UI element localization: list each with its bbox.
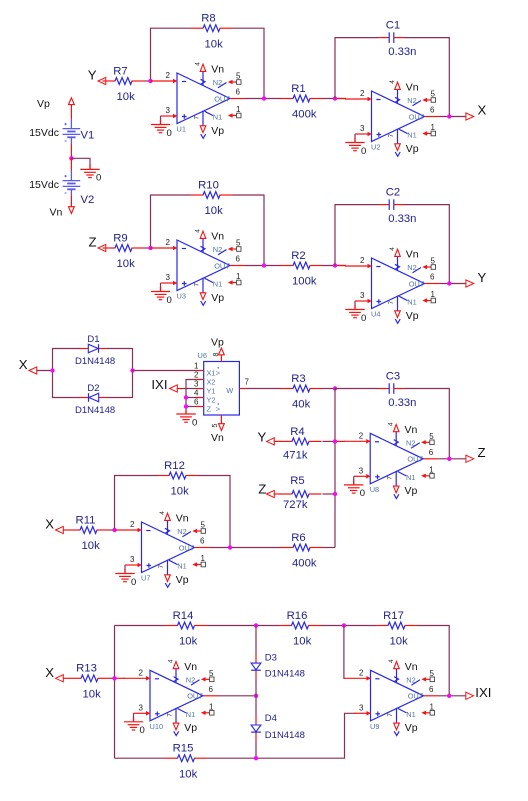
wire U6 W output <box>239 388 247 390</box>
power flag Vp <box>37 98 74 110</box>
svg-text:Y1: Y1 <box>207 386 216 395</box>
ground <box>345 306 366 324</box>
svg-text:R12: R12 <box>164 460 185 472</box>
wire <box>354 305 356 310</box>
pin leads <box>196 380 204 407</box>
svg-text:U4: U4 <box>371 310 380 319</box>
power pin Vn of U6 <box>211 415 224 444</box>
wire left vertical R14/R15 <box>114 626 116 759</box>
svg-text:Vp: Vp <box>211 337 224 349</box>
svg-text:>: > <box>216 368 220 377</box>
svg-text:V2: V2 <box>81 194 95 206</box>
resistor R8 <box>191 13 233 51</box>
power pin Vp of U6 <box>211 337 224 362</box>
svg-text:X: X <box>478 103 487 118</box>
wire U7 output to R6 <box>210 547 282 549</box>
svg-text:15Vdc: 15Vdc <box>29 179 59 191</box>
svg-text:IXI: IXI <box>475 685 491 700</box>
wire <box>255 740 257 758</box>
wire <box>274 440 281 442</box>
svg-text:2: 2 <box>194 371 199 380</box>
wire <box>177 388 183 390</box>
wire R10 feedback loop <box>151 195 191 248</box>
svg-text:15Vdc: 15Vdc <box>29 127 59 139</box>
junction <box>333 492 337 496</box>
svg-text:D2: D2 <box>87 383 99 394</box>
wire C2 feedback loop <box>335 205 379 266</box>
svg-text:R13: R13 <box>76 663 97 675</box>
svg-text:X1: X1 <box>207 368 216 377</box>
wire C1 feedback loop <box>335 38 379 99</box>
ground <box>344 481 365 499</box>
junction <box>333 96 337 100</box>
wire to U2 pin 2 (red lead) <box>335 98 346 100</box>
svg-text:X: X <box>45 517 54 532</box>
svg-text:Y: Y <box>478 270 487 285</box>
ground <box>80 165 101 183</box>
svg-text:10k: 10k <box>117 258 136 270</box>
svg-text:7: 7 <box>245 378 250 387</box>
wire <box>354 138 356 143</box>
op-amp U3 <box>151 229 246 306</box>
wire upper diode branch <box>53 349 81 371</box>
wire U10 output to diode node <box>218 695 256 697</box>
junction <box>447 281 451 285</box>
svg-text:C2: C2 <box>386 187 400 199</box>
junction <box>333 439 337 443</box>
svg-text:10k: 10k <box>179 768 198 780</box>
junction <box>130 368 134 372</box>
svg-text:W: W <box>226 386 233 395</box>
svg-text:C3: C3 <box>386 371 400 383</box>
junction <box>112 528 116 532</box>
wire U2 pin3 to ground <box>354 134 356 139</box>
svg-text:10k: 10k <box>83 689 102 701</box>
wire X to diode branch <box>36 370 52 372</box>
node IXI to U6 pin Y1 <box>151 377 177 392</box>
wire junction to ground 0 <box>71 158 90 166</box>
wire <box>353 480 355 485</box>
wire U1 output <box>245 98 281 100</box>
wire U10 pin3 to ground <box>133 713 135 718</box>
svg-text:U3: U3 <box>177 292 186 301</box>
dc source V2 15Vdc <box>29 171 94 206</box>
ground <box>124 718 145 736</box>
svg-text:0.33n: 0.33n <box>388 46 416 58</box>
junction <box>69 156 73 160</box>
wire <box>274 493 281 495</box>
svg-text:Vp: Vp <box>37 98 50 110</box>
junction <box>447 694 451 698</box>
wire U6 X2/Y2/Z to ground <box>186 380 196 411</box>
resistor R2 <box>281 250 323 288</box>
node Z (input, row 2) <box>88 234 105 251</box>
dc source V1 15Vdc <box>29 119 94 144</box>
op-amp U1 <box>151 62 246 139</box>
svg-text:10k: 10k <box>117 91 136 103</box>
svg-text:100k: 100k <box>292 276 317 288</box>
svg-text:10k: 10k <box>205 38 224 50</box>
op-amp U4 <box>345 247 440 324</box>
capacitor C2 <box>379 187 417 226</box>
svg-text:R14: R14 <box>173 610 194 622</box>
svg-text:Z: Z <box>478 445 486 460</box>
svg-text:10k: 10k <box>390 636 409 648</box>
wire diode chain top <box>255 626 257 655</box>
wire <box>207 713 355 758</box>
wire <box>321 625 376 627</box>
wire V1 to junction <box>70 143 72 158</box>
wire <box>63 529 68 531</box>
wire R8 feedback loop <box>151 28 191 81</box>
svg-text:X2: X2 <box>207 377 216 386</box>
svg-text:R11: R11 <box>76 514 96 526</box>
wire U8 output to Z <box>438 458 466 460</box>
svg-text:R3: R3 <box>291 373 305 385</box>
node IXI (output) <box>466 685 492 700</box>
svg-text:3: 3 <box>194 380 199 389</box>
wire <box>255 696 257 717</box>
svg-text:6: 6 <box>194 398 199 407</box>
node Y (output, row 2) <box>466 270 487 287</box>
resistor R12 <box>157 460 199 498</box>
wire <box>89 165 91 169</box>
wire <box>107 371 133 398</box>
diode D1 D1N4148 <box>75 334 115 367</box>
svg-text:R4: R4 <box>290 426 304 438</box>
multiplier U6 <box>194 351 249 428</box>
node Z (output, row 3) <box>466 445 486 462</box>
svg-text:10k: 10k <box>205 205 224 217</box>
junction <box>333 263 337 267</box>
svg-text:D1N4148: D1N4148 <box>75 356 115 367</box>
node X (output, row 1) <box>466 103 487 121</box>
resistor R6 <box>281 532 323 570</box>
svg-text:R9: R9 <box>113 232 127 244</box>
svg-text:D1N4148: D1N4148 <box>265 668 305 679</box>
diode D3 D1N4148 (pointing down) <box>251 652 305 679</box>
svg-text:400k: 400k <box>292 109 317 121</box>
svg-text:Y: Y <box>258 430 267 445</box>
wire R7 to U1 pin 2 junction <box>145 80 153 82</box>
wire R4 to bus / U8 pin2 <box>323 440 336 442</box>
junction <box>50 368 54 372</box>
wire R12 feedback loop <box>115 476 157 531</box>
junction <box>333 386 337 390</box>
svg-text:D1: D1 <box>87 334 99 345</box>
junction <box>262 96 266 100</box>
wire U2 output to X <box>440 116 467 118</box>
svg-text:R6: R6 <box>291 532 305 544</box>
ground <box>176 410 197 428</box>
svg-text:X: X <box>19 357 28 372</box>
node X (input, row 4) <box>45 665 63 682</box>
wire <box>107 349 133 371</box>
resistor R17 <box>376 610 418 648</box>
svg-text:Z: Z <box>207 404 212 413</box>
svg-text:R2: R2 <box>291 250 305 262</box>
svg-text:5: 5 <box>212 424 219 428</box>
resistor R3 <box>281 373 323 411</box>
svg-text:V1: V1 <box>81 130 95 142</box>
wire U7 pin3 to ground <box>124 565 126 570</box>
junction <box>254 756 258 760</box>
resistor R13 <box>69 663 111 701</box>
svg-text:>: > <box>216 404 220 413</box>
resistor R4 <box>280 426 322 462</box>
svg-text:R1: R1 <box>291 83 305 95</box>
svg-text:727k: 727k <box>283 499 308 511</box>
wire pin2 lead <box>115 677 126 679</box>
svg-text:10k: 10k <box>82 540 101 552</box>
svg-text:D1N4148: D1N4148 <box>265 730 305 741</box>
resistor R10 <box>191 179 233 217</box>
junction <box>228 545 232 549</box>
svg-text:R10: R10 <box>198 179 219 191</box>
junction <box>262 263 266 267</box>
ground <box>115 570 136 588</box>
wire U1 pin3 to ground <box>160 116 162 121</box>
wire R13 to U10 junction <box>111 677 117 679</box>
svg-text:R5: R5 <box>290 475 304 487</box>
svg-text:X: X <box>45 665 54 680</box>
wire U3 output <box>245 265 281 267</box>
wire to U4 pin 2 (red lead) <box>335 265 346 267</box>
diode D2 D1N4148 (reversed) <box>75 383 115 416</box>
wire U4 output to Y <box>440 283 467 285</box>
svg-text:Y2: Y2 <box>207 395 216 404</box>
node Z (input, row 3) <box>258 482 274 498</box>
junction <box>342 623 346 627</box>
svg-text:D1N4148: D1N4148 <box>75 405 115 416</box>
svg-text:D4: D4 <box>265 713 277 724</box>
svg-text:U9: U9 <box>370 722 379 731</box>
svg-text:40k: 40k <box>292 399 311 411</box>
svg-text:R8: R8 <box>201 13 215 25</box>
svg-text:4: 4 <box>194 389 199 398</box>
diode D4 D1N4148 (pointing down) <box>251 713 305 741</box>
op-amp U7 <box>115 511 210 588</box>
op-amp U9 <box>344 659 439 736</box>
svg-text:C1: C1 <box>386 20 400 32</box>
wire lower diode branch <box>53 371 81 398</box>
wire rail to U9 feedback vertical <box>418 626 450 696</box>
node Y (input, row 1) <box>88 67 106 84</box>
svg-text:U7: U7 <box>141 574 150 583</box>
wire <box>124 569 126 574</box>
svg-text:R17: R17 <box>383 610 404 622</box>
wire R9 to U3 pin 2 junction <box>145 247 153 249</box>
wire mid vertical to U9 pin 2 <box>344 626 345 679</box>
svg-text:U1: U1 <box>177 125 186 134</box>
node Y (input, row 3) <box>258 430 275 446</box>
node X (input, U7) <box>45 517 63 534</box>
wire <box>63 677 69 679</box>
wire bottom rail R15 <box>115 757 166 759</box>
junction <box>447 457 451 461</box>
ground <box>151 288 172 306</box>
wire junction to V2 <box>70 158 72 171</box>
svg-text:Vn: Vn <box>211 432 224 444</box>
junction <box>184 404 188 408</box>
resistor R9 <box>103 232 145 270</box>
junction <box>148 246 152 250</box>
capacitor C1 <box>379 20 417 59</box>
wire U4 pin3 to ground <box>354 301 356 306</box>
svg-text:400k: 400k <box>292 558 317 570</box>
wire U3 pin3 to ground <box>160 283 162 288</box>
ground <box>151 121 172 139</box>
svg-text:U2: U2 <box>371 143 380 152</box>
svg-text:Vn: Vn <box>50 207 63 219</box>
wire R2 to C2 junction <box>323 265 347 267</box>
resistor R7 <box>103 65 145 103</box>
op-amp U2 <box>345 80 440 157</box>
resistor R11 <box>68 514 110 552</box>
wire R6 to bus <box>323 547 336 549</box>
resistor R14 <box>165 610 207 648</box>
svg-text:1: 1 <box>194 362 199 371</box>
svg-text:U10: U10 <box>150 722 164 731</box>
junction <box>254 623 258 627</box>
svg-text:U6: U6 <box>198 351 207 360</box>
wire summing bus <box>334 389 336 548</box>
resistor R15 <box>165 743 207 781</box>
resistor R16 <box>279 610 321 648</box>
svg-text:10k: 10k <box>293 636 312 648</box>
svg-text:Z: Z <box>88 234 96 249</box>
wire V2 to Vn <box>70 195 72 207</box>
resistor R1 <box>281 83 323 121</box>
wire R3 to bus <box>323 388 336 390</box>
wire <box>160 287 162 292</box>
capacitor C3 <box>379 371 417 410</box>
svg-text:10k: 10k <box>171 486 190 498</box>
junction <box>447 114 451 118</box>
wire diode node to U6 pin X1 <box>133 370 197 372</box>
wire <box>160 120 162 125</box>
junction <box>148 79 152 83</box>
wire R5 to bus <box>323 493 336 495</box>
svg-text:0.33n: 0.33n <box>388 213 416 225</box>
wire Vp to V1 <box>70 105 72 119</box>
svg-text:U8: U8 <box>370 485 379 494</box>
svg-text:R15: R15 <box>173 743 194 755</box>
junction <box>254 694 258 698</box>
pin 1 lead <box>196 370 204 372</box>
wire R11 to U7 junction <box>110 529 117 531</box>
wire R1 to C1 junction <box>323 98 347 100</box>
wire <box>207 625 279 627</box>
wire U8 pin3 to ground <box>353 476 355 481</box>
node X (input, row 3) <box>19 357 37 374</box>
op-amp U10 <box>124 659 219 736</box>
wire U9 output to IXI <box>439 695 467 697</box>
svg-text:471k: 471k <box>283 450 308 462</box>
junction <box>184 395 188 399</box>
ground <box>345 139 366 157</box>
power flag Vn <box>50 207 75 219</box>
wire top rail <box>115 625 166 627</box>
svg-text:D3: D3 <box>265 652 277 663</box>
svg-text:R7: R7 <box>113 65 127 77</box>
wire <box>255 678 257 696</box>
junction <box>112 676 116 680</box>
svg-text:Z: Z <box>258 482 266 497</box>
resistor R5 <box>280 475 322 511</box>
wire <box>133 717 135 722</box>
op-amp U8 <box>344 422 439 499</box>
svg-text:R16: R16 <box>287 610 308 622</box>
svg-text:10k: 10k <box>179 636 198 648</box>
svg-text:IXI: IXI <box>151 377 167 392</box>
svg-text:Y: Y <box>88 67 97 82</box>
wire C3 row <box>335 388 379 390</box>
svg-text:0.33n: 0.33n <box>388 397 416 409</box>
